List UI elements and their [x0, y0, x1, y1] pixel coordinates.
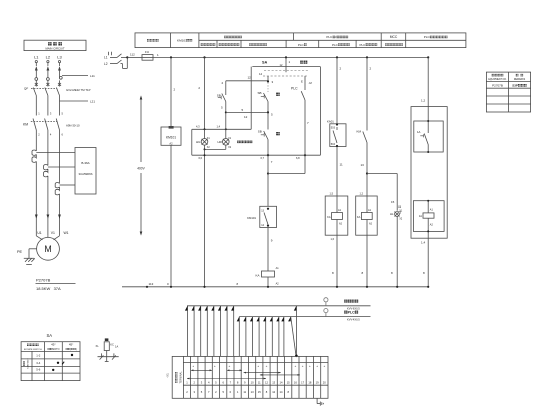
svg-text:HL: HL — [390, 212, 394, 216]
svg-text:KM101: KM101 — [247, 216, 256, 220]
lamp HL — [395, 212, 400, 287]
svg-text:M: M — [44, 244, 51, 254]
wire to HL lamp — [367, 173, 397, 175]
pushbutton actuator stop — [261, 96, 264, 98]
contactor KM main contacts — [31, 112, 64, 184]
svg-text:PLC: PLC — [326, 35, 333, 39]
equipment table — [486, 72, 530, 112]
label manual glyph — [276, 93, 280, 96]
remote coil 1A box — [413, 200, 444, 287]
selector table — [21, 342, 80, 381]
svg-text:L21: L21 — [90, 100, 95, 104]
svg-text:KC: KC — [110, 343, 114, 347]
junction rail KA03 — [366, 286, 368, 288]
equipment table labels — [488, 74, 526, 88]
junction node 5 — [267, 111, 269, 113]
terminal wire numbers — [186, 390, 289, 394]
junction node 3 — [267, 80, 269, 82]
relay contact KA01 box — [330, 123, 346, 147]
svg-text:MAIN CIRCUIT: MAIN CIRCUIT — [45, 47, 64, 51]
svg-text:L3: L3 — [57, 54, 62, 59]
cable 2 shield symbol — [324, 309, 328, 317]
wire arrows to motor — [35, 215, 61, 240]
wire shield diagonal from cable2 — [288, 317, 296, 356]
selector contact manual — [267, 76, 269, 92]
svg-text:+: + — [229, 364, 231, 368]
wire to fuse — [127, 56, 142, 58]
svg-text:45°: 45° — [69, 342, 74, 346]
junction control feed — [126, 56, 128, 58]
wire HG lamp branch — [204, 57, 206, 129]
svg-text:19: 19 — [316, 380, 319, 384]
wire node5 link — [226, 111, 268, 113]
junction bus at KA01 branch — [336, 56, 338, 58]
svg-text:12: 12 — [272, 390, 275, 394]
voltage dimension line 400V — [140, 95, 143, 235]
svg-text:EQUIPMENT NO.: EQUIPMENT NO. — [488, 79, 507, 81]
svg-text:MOTO: MOTO — [52, 348, 59, 351]
MCC big box — [411, 107, 447, 239]
junction bus at MCC branch — [427, 56, 429, 58]
relay KA03 box — [356, 174, 378, 236]
junction on box bottom — [204, 154, 206, 156]
terminal numbers — [186, 380, 326, 384]
svg-text:15: 15 — [287, 380, 290, 384]
ground — [24, 258, 35, 264]
svg-text:HG: HG — [196, 140, 201, 144]
wire stop branch top — [226, 80, 268, 82]
contactor coil KM101 — [161, 126, 181, 145]
svg-text:10: 10 — [251, 380, 254, 384]
junction rail lamp — [203, 286, 205, 288]
relay KA02 box — [325, 196, 348, 235]
terminal strip column lines — [191, 356, 321, 398]
svg-text:S3P: S3P — [512, 84, 518, 88]
junction start bottom — [267, 172, 269, 174]
relay coil KA — [262, 271, 275, 277]
svg-text:W1: W1 — [63, 231, 68, 235]
label auto — [300, 61, 307, 64]
label location note — [398, 206, 401, 208]
terminal wires group B — [237, 317, 284, 357]
svg-text:15: 15 — [258, 390, 261, 394]
svg-text:CONTACT: CONTACT — [26, 358, 29, 369]
local box outline wires — [192, 129, 321, 155]
svg-text:5-6: 5-6 — [36, 368, 40, 372]
svg-text:PLC: PLC — [360, 43, 367, 47]
svg-text:GV2-ME32 TM T1P: GV2-ME32 TM T1P — [66, 88, 91, 92]
junction node 68 — [304, 154, 306, 156]
wire phase B drop with plug contacts — [46, 61, 49, 87]
svg-text:11: 11 — [258, 380, 261, 384]
circuit breaker QF — [31, 88, 60, 116]
junction rail KA02 — [336, 286, 338, 288]
label main circuit — [48, 42, 62, 45]
svg-text:+: + — [192, 364, 194, 368]
wire phase A drop with plug contacts — [35, 61, 38, 87]
wire control tap from phase C — [62, 75, 88, 77]
svg-text:V1: V1 — [51, 231, 55, 235]
remote contact 1A box — [414, 120, 443, 153]
svg-text:L2: L2 — [46, 54, 51, 59]
svg-text:13: 13 — [361, 163, 365, 167]
svg-text:+: + — [257, 364, 259, 368]
thermal element phase A — [32, 150, 75, 236]
junction rail KM101 — [170, 286, 172, 288]
lamp HR — [223, 129, 230, 149]
wire KA01 branch — [336, 57, 338, 124]
svg-text:KM101: KM101 — [166, 135, 176, 139]
svg-text:12: 12 — [248, 76, 252, 80]
svg-text:B-36A: B-36A — [81, 161, 89, 165]
svg-text:ROTATE SWITCH: ROTATE SWITCH — [24, 348, 42, 351]
wire selector left drop — [250, 67, 252, 130]
junction lamp return — [204, 148, 206, 150]
junction lamp feed — [204, 128, 206, 130]
svg-text:1,2: 1,2 — [421, 99, 426, 103]
wire phase C drop with plug contacts — [58, 61, 62, 87]
svg-text:503: 503 — [331, 127, 336, 130]
svg-text:12: 12 — [244, 115, 248, 119]
wire aux to coil KA — [267, 228, 269, 272]
svg-text:20: 20 — [323, 380, 326, 384]
thermal element phase B — [44, 164, 75, 235]
svg-text:L1: L1 — [34, 54, 39, 59]
svg-text:KA01: KA01 — [327, 120, 334, 124]
pushbutton actuator start — [261, 134, 264, 136]
svg-text:6,7: 6,7 — [261, 156, 265, 160]
junction bus at lamp branch — [203, 56, 205, 58]
svg-text:1A: 1A — [419, 214, 422, 218]
svg-text:1,2: 1,2 — [360, 192, 364, 195]
header labels — [147, 35, 448, 47]
junction shield at strip — [295, 355, 298, 358]
svg-text:17: 17 — [301, 380, 304, 384]
svg-text:U1: U1 — [37, 231, 41, 235]
svg-text:1,5: 1,5 — [330, 192, 334, 195]
svg-text:SB: SB — [257, 91, 261, 95]
svg-text:112: 112 — [130, 53, 135, 57]
terminal plus marks — [192, 364, 325, 368]
junction node 5 left — [225, 111, 227, 113]
svg-text:REMARKS: REMARKS — [514, 78, 526, 81]
aux contact KM — [363, 132, 367, 174]
svg-text:KM101: KM101 — [177, 39, 187, 43]
junction rail 113 — [146, 286, 148, 288]
svg-text:-X1: -X1 — [166, 373, 170, 378]
wire MCC branch — [427, 57, 429, 120]
junction KM aux bottom — [366, 172, 368, 174]
svg-text:+: + — [302, 364, 304, 368]
label strip name — [175, 372, 177, 383]
svg-text:+: + — [295, 364, 297, 368]
wire top bus — [153, 56, 429, 58]
svg-text:FU: FU — [145, 50, 149, 54]
terminal jumper arrows — [187, 369, 300, 379]
svg-text:400V: 400V — [137, 166, 145, 170]
selector switch SA frame — [252, 57, 320, 155]
thermal relay FR box — [75, 148, 96, 195]
wire start to aux — [267, 155, 269, 206]
junction bus at KM101 branch — [170, 56, 172, 58]
terminal strip X1 outer box — [172, 356, 328, 398]
svg-text:1,4: 1,4 — [421, 240, 426, 244]
wire KM101 coil to rail — [170, 145, 172, 286]
svg-text:L11: L11 — [90, 74, 95, 78]
svg-text:13: 13 — [251, 390, 254, 394]
main circuit title box — [24, 40, 86, 50]
label cable 1 destination — [344, 300, 358, 303]
svg-text:1,4: 1,4 — [217, 125, 221, 129]
thermal element phase C — [55, 182, 75, 235]
svg-text:+: + — [309, 364, 311, 368]
svg-text:13: 13 — [272, 380, 275, 384]
junction bus at SA branch — [285, 56, 287, 58]
strip ground — [317, 398, 323, 405]
selector table texts — [23, 342, 77, 371]
svg-text:L1: L1 — [104, 56, 108, 60]
legend pushbutton symbol — [98, 338, 119, 361]
svg-text:PLC: PLC — [424, 35, 431, 39]
svg-text:12: 12 — [265, 380, 268, 384]
svg-text:MCC: MCC — [390, 35, 398, 39]
svg-text:+: + — [266, 364, 268, 368]
svg-text:TERMINAL: TERMINAL — [180, 371, 183, 384]
svg-text:E: E — [301, 80, 303, 84]
aux contact KM101 box — [260, 206, 277, 227]
svg-text:45°: 45° — [51, 342, 56, 346]
svg-text:113: 113 — [149, 282, 154, 286]
svg-text:18.5KW 37A: 18.5KW 37A — [36, 286, 61, 291]
wire KA to rail — [267, 277, 269, 287]
svg-text:6,0: 6,0 — [199, 156, 203, 160]
svg-text:KM: KM — [23, 123, 28, 127]
wire KM101 coil branch — [170, 57, 172, 127]
svg-text:A9N-30-10: A9N-30-10 — [66, 124, 80, 128]
svg-text:4,3: 4,3 — [196, 125, 200, 129]
junction node 67 — [267, 154, 269, 156]
cable line 2 — [239, 316, 370, 318]
cable 1 shield symbol — [324, 298, 328, 306]
cable line 1 — [187, 305, 371, 307]
fuse FU — [142, 55, 153, 61]
label local control box — [237, 141, 252, 144]
wire KM aux branch — [366, 57, 368, 130]
svg-text:KA: KA — [357, 215, 361, 219]
selector contact auto PLC — [301, 76, 305, 174]
wire bottom rail 0V — [122, 286, 429, 288]
svg-text:P2707B: P2707B — [36, 278, 51, 283]
svg-text:6,8: 6,8 — [296, 156, 300, 160]
pushbutton actuator stop left — [218, 96, 221, 98]
wire KA02 to rail — [336, 235, 338, 287]
svg-text:504: 504 — [331, 143, 336, 146]
wire PE to ground — [29, 249, 37, 258]
svg-text:+: + — [324, 364, 326, 368]
wire underline — [36, 282, 76, 284]
pushbutton SB stop — [222, 81, 226, 130]
svg-text:11: 11 — [243, 390, 246, 394]
svg-text:15: 15 — [391, 200, 395, 204]
svg-text:SA: SA — [262, 61, 268, 65]
svg-text:+: + — [316, 364, 318, 368]
breaker QF2 two pole — [109, 52, 128, 69]
label start glyph — [276, 132, 280, 135]
svg-text:L2: L2 — [104, 62, 108, 66]
header table — [135, 33, 466, 48]
wire HL lamp branch — [396, 174, 398, 211]
wire shield drop from cable1 — [294, 306, 297, 356]
motor M — [37, 237, 60, 260]
svg-text:P2707B: P2707B — [492, 84, 503, 88]
svg-text:KA: KA — [255, 273, 259, 277]
svg-text:1-2: 1-2 — [36, 353, 40, 357]
terminal wires group A — [185, 306, 234, 357]
svg-text:SB: SB — [217, 93, 221, 97]
junction rail HL — [396, 286, 398, 288]
junction lamp2 feed — [225, 128, 227, 130]
svg-text:+: + — [214, 364, 216, 368]
svg-text:1A: 1A — [115, 344, 118, 348]
junction rail KA — [267, 286, 269, 288]
svg-text:A2: A2 — [169, 142, 173, 146]
wire lamp bottoms link — [205, 148, 226, 150]
svg-text:14: 14 — [280, 380, 283, 384]
label cable 2 destination — [344, 311, 358, 315]
selector linkage dashed — [263, 70, 309, 76]
junction rail MCC — [427, 286, 429, 288]
svg-text:KM: KM — [357, 130, 362, 134]
lamp HG — [201, 129, 208, 149]
wire lamp return to rail — [204, 149, 206, 286]
svg-text:1A: 1A — [417, 130, 421, 134]
svg-text:QF: QF — [24, 87, 28, 91]
pushbutton stop SB101 — [264, 93, 269, 112]
junction bus at KM aux branch — [366, 56, 368, 58]
svg-text:14: 14 — [280, 390, 283, 394]
svg-text:PLC: PLC — [291, 87, 298, 91]
selector table dots — [52, 354, 73, 371]
wire KA01 to KA02 — [336, 147, 338, 197]
svg-text:PLC: PLC — [332, 43, 339, 47]
svg-text:16: 16 — [294, 380, 297, 384]
svg-text:18: 18 — [308, 380, 311, 384]
svg-text:PE: PE — [17, 250, 23, 254]
svg-text:XL: XL — [96, 344, 100, 348]
svg-text:KA: KA — [327, 215, 331, 219]
svg-text:3-4: 3-4 — [36, 361, 40, 365]
svg-text:3UA59R6S: 3UA59R6S — [79, 172, 93, 176]
svg-text:SA: SA — [47, 333, 53, 338]
svg-text:14: 14 — [259, 72, 263, 76]
svg-text:1,6: 1,6 — [331, 238, 335, 241]
svg-text:KVV-4X0.5: KVV-4X0.5 — [347, 317, 360, 321]
svg-text:PLC: PLC — [348, 311, 356, 315]
wire KA03 to rail — [366, 235, 368, 287]
wire seal-in link — [268, 173, 305, 175]
svg-text:SB: SB — [258, 130, 262, 134]
svg-text:PLC: PLC — [298, 43, 305, 47]
wire control tap 2 from phase C — [60, 100, 89, 102]
pushbutton start SB102 — [264, 112, 268, 155]
svg-text:11: 11 — [340, 162, 343, 166]
